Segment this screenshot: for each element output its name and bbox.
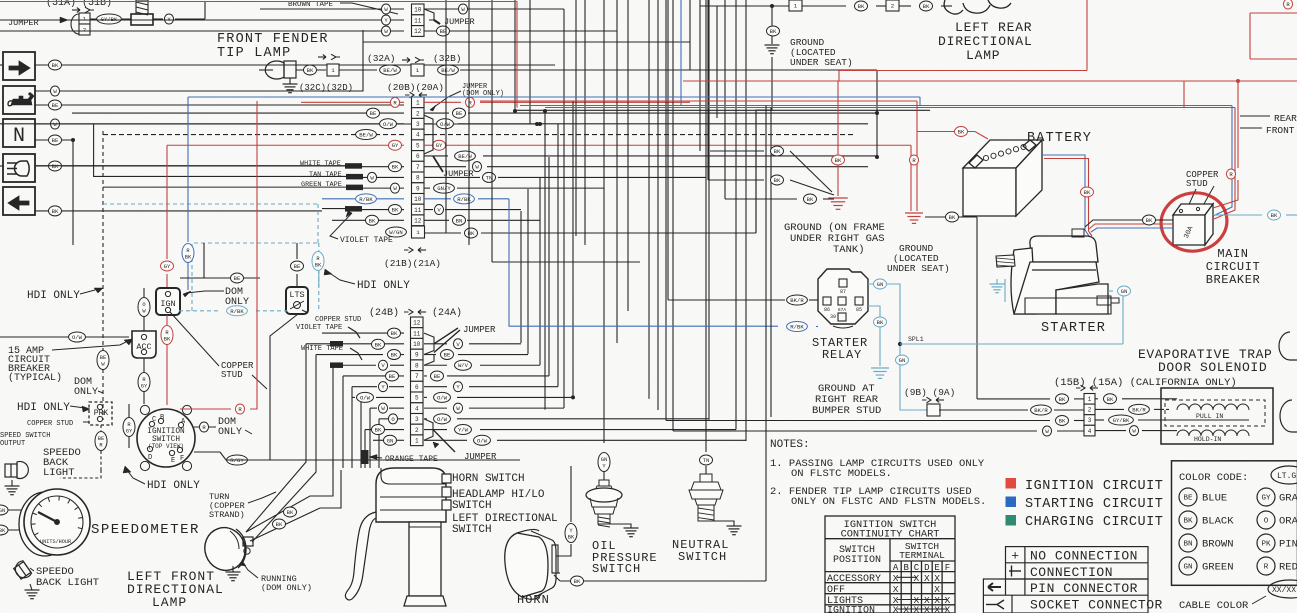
svg-text:WHITE TAPE: WHITE TAPE — [300, 160, 341, 168]
svg-text:CONNECTION: CONNECTION — [1030, 565, 1113, 580]
ground at fender tip lamp — [289, 78, 291, 84]
wire gy/bk — [90, 18, 131, 20]
indicator icon: oil pressure — [3, 86, 35, 114]
neutral switch — [689, 474, 723, 521]
svg-text:HORN: HORN — [517, 593, 550, 607]
svg-text:STARTING CIRCUIT: STARTING CIRCUIT — [1025, 497, 1163, 512]
svg-text:BK: BK — [923, 3, 930, 10]
wire bk pin2 24 orange tape — [365, 429, 372, 431]
svg-text:BE: BE — [434, 373, 441, 380]
svg-text:5: 5 — [415, 395, 419, 402]
svg-text:(9B) (9A): (9B) (9A) — [904, 387, 955, 398]
svg-text:BLUE: BLUE — [1202, 493, 1227, 505]
symbol legend table — [983, 547, 1148, 613]
orange tape bar — [362, 450, 369, 464]
solenoid hold-in coil — [1177, 430, 1249, 436]
svg-text:8: 8 — [416, 175, 420, 182]
svg-text:SWITCH: SWITCH — [452, 500, 492, 512]
wire bk pin9 24 — [316, 354, 383, 356]
component ACC circuit breaker — [132, 331, 156, 358]
wire o/w pin3 24 right — [424, 418, 427, 420]
svg-text:REAR: REAR — [1274, 113, 1297, 124]
svg-text:GREEN: GREEN — [1202, 562, 1234, 574]
ground at oil pressure switch — [610, 524, 631, 528]
svg-text:12: 12 — [414, 28, 422, 35]
wire o/w pin5 24 — [352, 396, 355, 398]
svg-text:IGNITION: IGNITION — [827, 606, 875, 613]
legend charging circuit — [1006, 515, 1017, 526]
wire bk to front lamp — [246, 460, 333, 532]
svg-text:POSITION: POSITION — [833, 555, 881, 566]
svg-text:BK: BK — [52, 163, 59, 170]
svg-text:PK: PK — [1261, 541, 1271, 549]
junction dots trunk — [513, 109, 517, 113]
svg-text:COLOR CODE:: COLOR CODE: — [1179, 472, 1248, 484]
svg-text:4: 4 — [1088, 428, 1092, 435]
svg-text:30: 30 — [830, 314, 836, 320]
svg-text:HDI ONLY: HDI ONLY — [27, 290, 80, 302]
wire bk pin11 24 — [322, 332, 404, 334]
wire gy pin5 — [167, 144, 404, 146]
svg-text:BK: BK — [375, 341, 382, 348]
wire r/bk blue to starter relay — [509, 199, 778, 326]
wire be/w tag on hdi dashed — [97, 351, 109, 370]
wire stub left edge to turn indicator — [0, 64, 3, 66]
svg-text:BE/W: BE/W — [359, 132, 373, 139]
svg-text:BK: BK — [770, 28, 777, 35]
wire bk below strip — [424, 232, 461, 234]
svg-text:2: 2 — [83, 27, 87, 34]
connector strip pins 10-12 top — [412, 4, 425, 36]
svg-text:1: 1 — [415, 438, 419, 445]
teal dashed wires left — [103, 203, 318, 205]
svg-text:BN: BN — [456, 217, 463, 224]
svg-text:A: A — [893, 563, 899, 573]
svg-text:PRK: PRK — [94, 409, 109, 418]
component LTS circuit breaker — [286, 287, 308, 314]
ground at speedo back light lower — [30, 584, 32, 590]
svg-text:IGN: IGN — [160, 299, 175, 309]
svg-text:OUTPUT: OUTPUT — [0, 440, 25, 448]
battery — [963, 140, 1042, 216]
indicator icon: neutral — [3, 119, 35, 147]
jumper 24 strip bottom pins 3-1 — [424, 419, 433, 440]
svg-text:+: + — [1011, 549, 1019, 564]
svg-text:BE: BE — [52, 137, 59, 144]
svg-text:GY/BK: GY/BK — [1113, 417, 1130, 424]
svg-text:STUD: STUD — [1186, 179, 1208, 189]
svg-text:85: 85 — [856, 307, 862, 313]
svg-text:(24A): (24A) — [432, 307, 462, 319]
ignition coil component — [136, 0, 148, 15]
svg-text:9: 9 — [415, 352, 419, 359]
wire bk horn right — [560, 580, 766, 582]
wire w from oil indicator — [35, 30, 363, 91]
svg-text:1: 1 — [83, 16, 87, 23]
svg-text:PINK: PINK — [1279, 539, 1297, 551]
wire red ignition to right — [180, 408, 231, 410]
svg-text:1: 1 — [416, 100, 420, 107]
ground at speedo back light upper — [11, 480, 13, 486]
svg-text:2: 2 — [1088, 407, 1092, 414]
svg-text:HORN SWITCH: HORN SWITCH — [452, 473, 525, 485]
wire from lts copper stud down — [270, 314, 298, 460]
svg-text:RELAY: RELAY — [822, 348, 862, 362]
red wire branch to frame ground — [837, 81, 839, 196]
svg-text:BN: BN — [1183, 541, 1192, 549]
svg-text:SWITCH: SWITCH — [678, 550, 727, 564]
svg-text:W/GN: W/GN — [389, 229, 402, 236]
svg-text:HDI ONLY: HDI ONLY — [357, 280, 410, 292]
svg-text:VIOLET TAPE: VIOLET TAPE — [340, 236, 393, 245]
svg-text:BK: BK — [1059, 396, 1066, 403]
svg-text:BE: BE — [98, 436, 104, 442]
svg-text:ONLY ON FLSTC AND FLSTN MODELS: ONLY ON FLSTC AND FLSTN MODELS. — [791, 496, 986, 508]
svg-text:GN: GN — [1121, 288, 1128, 295]
svg-text:JUMPER: JUMPER — [464, 452, 497, 462]
clutch lever — [345, 512, 376, 600]
wire r/bk blue to ign — [187, 97, 189, 242]
trunk vertical wires — [446, 0, 756, 441]
svg-text:ORANGE TAPE: ORANGE TAPE — [385, 455, 438, 464]
wire y/w pin2 24 right — [424, 429, 447, 431]
svg-text:87: 87 — [840, 289, 846, 295]
wire gn pin1 24 — [373, 439, 384, 441]
wire w pin4 24 — [370, 407, 377, 409]
wire r/bk red below ign — [166, 315, 168, 325]
svg-text:BK: BK — [185, 254, 192, 260]
svg-text:10: 10 — [413, 341, 421, 348]
svg-text:FRONT FENDER: FRONT FENDER — [217, 32, 329, 47]
svg-text:BE: BE — [1183, 495, 1193, 503]
svg-text:NOTES:: NOTES: — [770, 439, 810, 451]
svg-text:BK: BK — [307, 67, 314, 74]
svg-text:Y/W: Y/W — [458, 427, 469, 434]
wire o/w to acc — [0, 336, 129, 338]
svg-text:11: 11 — [413, 330, 421, 337]
svg-text:BK: BK — [1271, 212, 1278, 219]
svg-text:X: X — [893, 584, 899, 595]
svg-text:E: E — [171, 457, 175, 465]
wire be from neutral indicator — [35, 139, 73, 141]
wire r/gy to ignition switch — [128, 404, 130, 417]
svg-text:TANK): TANK) — [833, 244, 865, 256]
svg-text:GN: GN — [387, 437, 394, 444]
ground at right rear bumper stud — [871, 368, 889, 378]
svg-text:GY: GY — [1261, 495, 1271, 503]
svg-text:O/W: O/W — [437, 394, 448, 401]
connector strip (15B)(15A) — [1076, 385, 1098, 391]
svg-text:OFF: OFF — [827, 585, 845, 596]
wire left from 32A — [259, 69, 273, 71]
svg-text:CONTINUITY CHART: CONTINUITY CHART — [841, 529, 940, 541]
svg-text:SOCKET CONNECTOR: SOCKET CONNECTOR — [1030, 598, 1163, 613]
svg-text:GN: GN — [877, 281, 884, 288]
svg-text:R: R — [1264, 564, 1269, 572]
svg-text:BK: BK — [1146, 217, 1153, 224]
svg-text:ACCESSORY: ACCESSORY — [827, 574, 881, 585]
jumper 24 strip top pins 11-9-8 — [424, 333, 434, 354]
left front directional lamp — [199, 522, 253, 576]
svg-text:BE: BE — [52, 102, 59, 109]
svg-text:JUMPER: JUMPER — [463, 325, 496, 335]
svg-text:DIRECTIONAL: DIRECTIONAL — [938, 34, 1033, 49]
svg-text:COPPER STUD: COPPER STUD — [27, 420, 73, 428]
svg-text:UNDER SEAT): UNDER SEAT) — [887, 263, 950, 274]
wire from coil to trunk — [204, 2, 206, 19]
wire o/w pin1 24 right — [424, 439, 467, 441]
svg-text:(24B): (24B) — [369, 307, 399, 319]
partial connector right edge a — [1279, 332, 1297, 360]
svg-text:X: X — [934, 584, 940, 595]
wire y pin6 24 right — [424, 386, 447, 388]
svg-text:BK: BK — [807, 196, 814, 203]
svg-text:UNDER SEAT): UNDER SEAT) — [790, 57, 853, 68]
wires bk to frame ground — [710, 150, 764, 152]
component IGN circuit breaker — [156, 288, 180, 315]
wire gy/bk 15B pin3 right — [1095, 419, 1104, 421]
svg-text:GN: GN — [601, 457, 607, 463]
svg-text:NO CONNECTION: NO CONNECTION — [1030, 549, 1138, 564]
svg-text:1: 1 — [794, 3, 798, 10]
wire be/r dashed prk down — [100, 425, 102, 431]
svg-text:4: 4 — [416, 132, 420, 139]
symbol socket connector — [986, 600, 1004, 609]
wire be pin2 — [72, 112, 404, 114]
wire bk from left turn indicator — [35, 210, 322, 212]
wire w branch to tan tape row — [93, 124, 95, 177]
svg-text:BATTERY: BATTERY — [1027, 131, 1092, 146]
svg-text:ORANGE: ORANGE — [1279, 516, 1297, 528]
svg-text:(32C)(32D): (32C)(32D) — [299, 83, 353, 93]
wire be pin7 24 — [343, 375, 387, 377]
indicator icon: left turn arrow — [3, 187, 35, 215]
svg-text:BK: BK — [0, 528, 6, 534]
svg-text:O: O — [142, 302, 145, 308]
wire be/w pin6 — [424, 155, 448, 157]
svg-text:11: 11 — [414, 207, 422, 214]
solenoid internal wires — [1161, 398, 1177, 400]
svg-text:CHARGING CIRCUIT: CHARGING CIRCUIT — [1025, 515, 1163, 530]
wire bk ground to starter — [925, 216, 977, 218]
wire be pin12 right — [424, 30, 617, 32]
svg-text:BK/R: BK/R — [1132, 406, 1146, 413]
svg-text:(15B) (15A) (CALIFORNIA ONLY): (15B) (15A) (CALIFORNIA ONLY) — [1054, 377, 1237, 389]
wire tn neutral switch — [705, 0, 707, 452]
svg-text:GN: GN — [1183, 564, 1192, 572]
svg-text:TERMINAL: TERMINAL — [899, 550, 945, 561]
wire be from ign right — [180, 277, 260, 279]
indicator icon: high beam — [3, 154, 35, 182]
wire be breaker right — [1213, 214, 1262, 216]
svg-text:12: 12 — [413, 320, 421, 327]
svg-text:BK: BK — [949, 214, 956, 221]
jumper 20 strip pins 2-4-6 — [424, 115, 433, 134]
svg-text:ON FLSTC MODELS.: ON FLSTC MODELS. — [791, 468, 892, 480]
svg-text:PIN CONNECTOR: PIN CONNECTOR — [1030, 581, 1138, 596]
svg-text:SPEED SWITCH: SPEED SWITCH — [0, 432, 50, 440]
red wire main top — [0, 1, 517, 3]
svg-text:(21B)(21A): (21B)(21A) — [384, 258, 441, 269]
ignition switch continuity chart — [825, 516, 955, 613]
svg-text:BK: BK — [574, 578, 581, 585]
wire lamp return — [363, 41, 690, 43]
svg-text:6: 6 — [416, 153, 420, 160]
svg-text:BK: BK — [52, 208, 59, 215]
svg-text:D: D — [924, 563, 929, 573]
wire w pin12 left — [0, 30, 404, 32]
svg-text:(TOP VIEW): (TOP VIEW) — [148, 443, 184, 450]
indicator icon: right turn arrow — [3, 52, 35, 80]
svg-text:TN: TN — [486, 174, 493, 181]
svg-text:O/W: O/W — [383, 121, 394, 128]
svg-text:GN/Y: GN/Y — [437, 185, 451, 192]
wire w pin10 right — [424, 8, 564, 10]
wire bk 15B pin1 right — [1095, 398, 1098, 400]
connector strip (24B)(24A) pins 12-1 — [411, 317, 424, 446]
svg-text:BK: BK — [276, 521, 283, 528]
wire r/gy below acc — [143, 358, 145, 372]
svg-text:COPPER STUD: COPPER STUD — [315, 316, 361, 324]
svg-text:RED: RED — [1279, 562, 1297, 574]
wire be pin9 24 right — [424, 354, 436, 356]
fender tip lamp bulb — [265, 61, 296, 79]
svg-text:X: X — [934, 573, 940, 584]
svg-text:ONLY: ONLY — [74, 387, 98, 398]
svg-text:CABLE COLOR: CABLE COLOR — [1179, 600, 1249, 612]
svg-text:TAN TAPE: TAN TAPE — [309, 171, 342, 179]
svg-text:DOOR SOLENOID: DOOR SOLENOID — [1158, 360, 1267, 375]
wire r/bk pin10 blue — [322, 198, 404, 200]
svg-text:O/W: O/W — [72, 334, 83, 341]
wire row y262 — [492, 261, 640, 263]
switch housing connector tabs — [442, 474, 451, 510]
svg-text:BREAKER: BREAKER — [1206, 273, 1261, 287]
wire v pin8 24 — [330, 364, 333, 366]
svg-text:BUMPER STUD: BUMPER STUD — [812, 405, 881, 417]
main circuit breaker — [1173, 204, 1213, 245]
evap trap door solenoid box — [1161, 388, 1273, 444]
legend ignition circuit — [1006, 478, 1017, 489]
svg-text:BK: BK — [774, 148, 781, 155]
ground at neutral switch — [714, 521, 734, 526]
svg-text:(TYPICAL): (TYPICAL) — [8, 372, 62, 384]
svg-text:BE: BE — [294, 263, 301, 270]
svg-text:2: 2 — [891, 3, 895, 10]
svg-text:BK: BK — [391, 352, 398, 359]
svg-text:GN: GN — [899, 357, 906, 364]
svg-text:BK: BK — [375, 427, 382, 434]
svg-text:BK: BK — [1059, 418, 1066, 425]
svg-text:8: 8 — [415, 362, 419, 369]
partial connector right edge b — [1280, 400, 1297, 432]
wire o/w acc up — [143, 288, 145, 297]
svg-text:BK: BK — [568, 534, 575, 540]
svg-text:IGNITION: IGNITION — [147, 428, 185, 436]
svg-text:XX/XX: XX/XX — [1272, 586, 1296, 595]
starter ground blue — [1004, 279, 1006, 302]
svg-text:2: 2 — [416, 110, 420, 117]
ground on frame under right gas tank — [828, 198, 848, 209]
left rear directional lamp bulb — [944, 0, 1011, 14]
svg-text:F: F — [180, 455, 184, 463]
svg-text:3: 3 — [415, 416, 419, 423]
wire bk from turn indicator — [35, 64, 555, 66]
svg-text:BK: BK — [858, 3, 865, 10]
wire w/v pin8 24 right — [424, 364, 447, 366]
svg-text:(32B): (32B) — [433, 53, 462, 64]
svg-text:BK: BK — [774, 177, 781, 184]
svg-text:STARTER: STARTER — [1041, 321, 1106, 336]
connector (21B)(21A) pin — [412, 226, 425, 238]
wire v pin10 24 right — [424, 343, 447, 345]
symbol pin connector — [988, 583, 1001, 591]
svg-text:(DOM ONLY): (DOM ONLY) — [261, 583, 312, 593]
svg-text:IGNITION CIRCUIT: IGNITION CIRCUIT — [1025, 479, 1163, 494]
svg-text:TN: TN — [703, 457, 710, 464]
svg-text:BK: BK — [369, 217, 376, 224]
svg-text:BK: BK — [164, 336, 171, 342]
svg-text:4: 4 — [415, 405, 419, 412]
svg-text:1: 1 — [416, 67, 420, 74]
svg-text:BK: BK — [287, 509, 294, 516]
svg-text:SPL1: SPL1 — [908, 336, 924, 343]
teal wire spl to starter — [900, 343, 1123, 345]
svg-text:VIOLET TAPE: VIOLET TAPE — [296, 324, 342, 332]
svg-text:R/BK: R/BK — [359, 196, 373, 203]
svg-text:D: D — [148, 454, 152, 462]
speedo back light bulb lower — [12, 560, 32, 581]
wire bk to 15B pin1 — [977, 398, 1050, 400]
svg-text:BE/W: BE/W — [383, 67, 397, 74]
svg-text:BLACK: BLACK — [1202, 516, 1234, 528]
svg-text:GRAY: GRAY — [1279, 493, 1297, 505]
trunk verticals right — [765, 106, 767, 582]
svg-text:(32A): (32A) — [367, 53, 396, 64]
svg-text:X: X — [914, 573, 920, 584]
svg-text:BE: BE — [389, 373, 396, 380]
svg-text:X: X — [924, 573, 930, 584]
svg-text:BK: BK — [835, 157, 842, 164]
svg-text:6: 6 — [415, 384, 419, 391]
symbol connection — [1009, 566, 1021, 577]
wire y — [153, 18, 163, 20]
blue red pair down to breaker — [1213, 106, 1232, 217]
svg-text:BROWN: BROWN — [1202, 539, 1234, 551]
wire row y111 — [515, 109, 930, 111]
wire w pin10 left — [260, 8, 404, 10]
wire be/w pin4 dashed hdi — [103, 134, 404, 136]
svg-text:BK: BK — [1183, 518, 1193, 526]
svg-text:GY: GY — [141, 383, 148, 389]
svg-text:JUMPER: JUMPER — [444, 17, 475, 27]
svg-text:GY: GY — [436, 142, 443, 149]
svg-text:BE: BE — [456, 110, 463, 117]
svg-text:C: C — [152, 416, 156, 424]
connector J1 pins 1-2 — [71, 14, 79, 34]
left rear lamp ground under seat — [700, 5, 789, 7]
red wires top right corner — [1250, 12, 1297, 14]
starter motor — [996, 229, 1119, 314]
legend starting circuit — [1006, 497, 1017, 508]
svg-text:O/W: O/W — [440, 121, 451, 128]
wires breaker to battery — [1085, 220, 1173, 227]
wire r/bk teal to lts — [318, 270, 320, 287]
svg-text:HDI ONLY: HDI ONLY — [147, 480, 200, 492]
hdi dashed box around ign/lts — [192, 243, 319, 311]
svg-text:STUD: STUD — [221, 370, 243, 380]
svg-text:ACC: ACC — [136, 342, 151, 352]
